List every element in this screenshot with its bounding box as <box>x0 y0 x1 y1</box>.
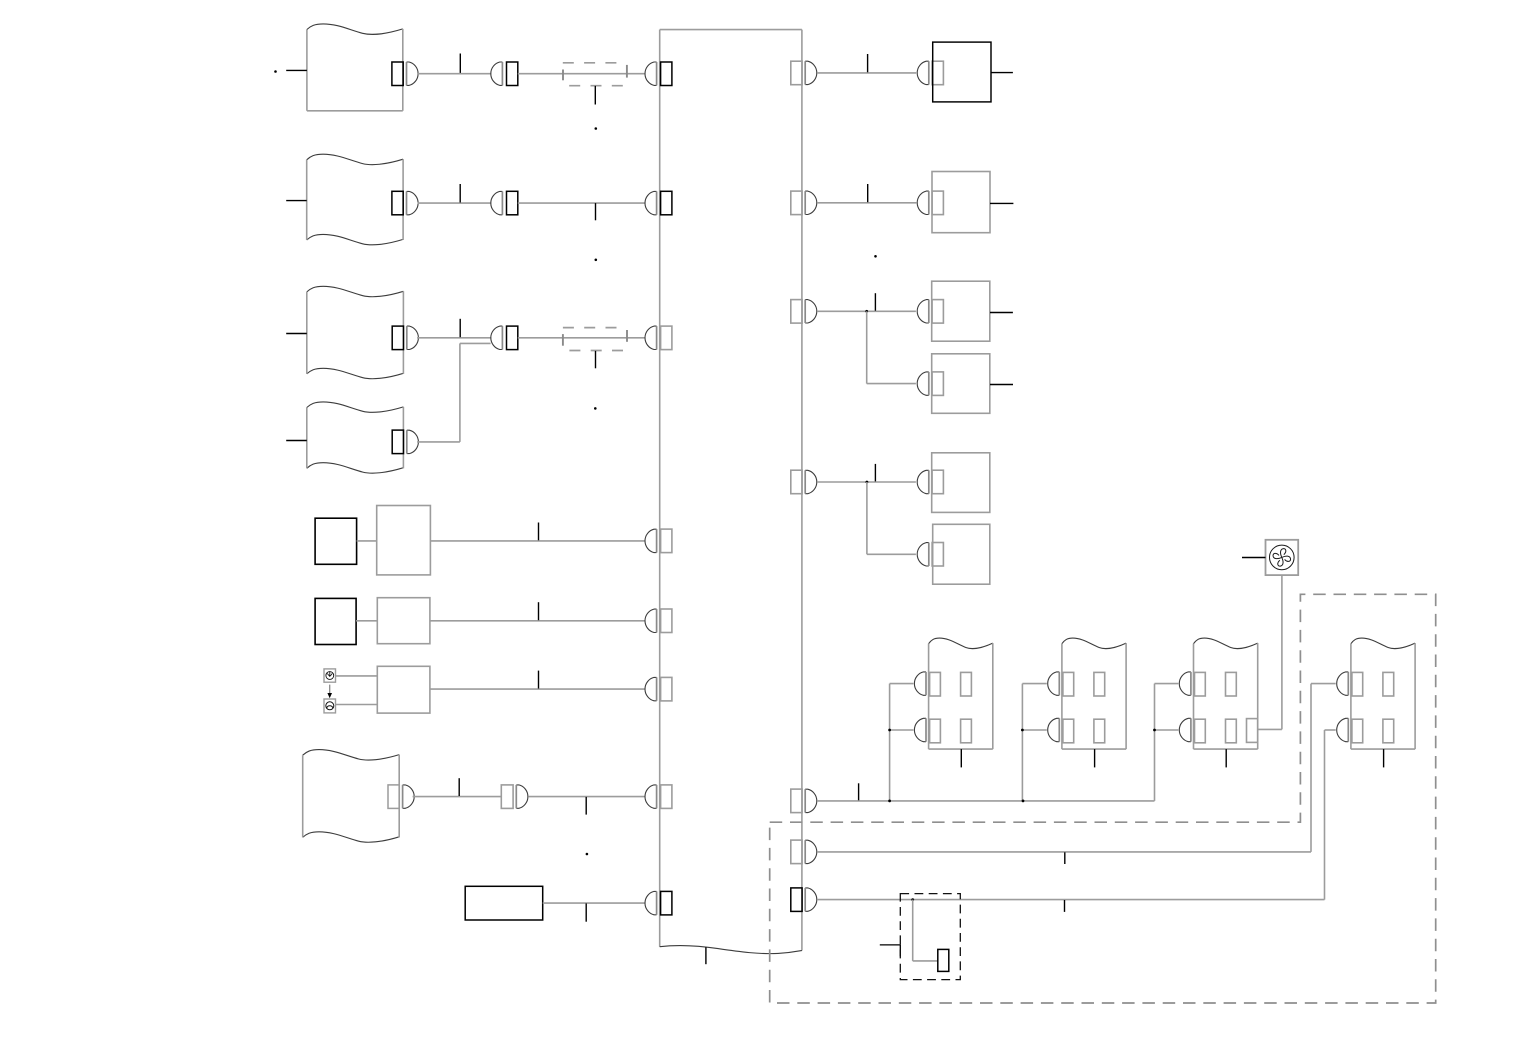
shield marking row 3 <box>563 328 627 351</box>
outlet 4 plug contact lower <box>1337 718 1349 741</box>
connector on box E <box>388 785 414 809</box>
wire icon 1 to module <box>336 675 378 677</box>
CU right pin row 8 <box>791 789 817 813</box>
fuse branch wire <box>913 900 938 961</box>
tick on wire row 5 <box>538 523 540 541</box>
outlet 1 <box>929 638 993 749</box>
stub wire left of fan <box>1242 557 1266 559</box>
ground tick below wire row 8 <box>585 797 587 815</box>
outlet 3 plug contact upper <box>1179 672 1191 695</box>
component square row 5 <box>315 518 357 564</box>
module box row 5 <box>377 506 431 575</box>
fuse element <box>938 949 949 971</box>
wire CU to unit R3a <box>817 310 916 312</box>
ground tick below shield row 3 <box>595 351 597 368</box>
harness box A (row 1) <box>307 24 403 111</box>
stub wire into box B <box>286 200 307 202</box>
junction outlet 1 riser <box>888 729 891 732</box>
dot mark below row 2 <box>595 259 598 262</box>
junction R3 <box>865 310 868 313</box>
stub right of unit R2 <box>990 202 1013 204</box>
outlet 2 plug contact lower <box>1048 718 1060 741</box>
harness box E (row 8) <box>303 750 400 843</box>
CU left pin row 2 <box>645 191 672 215</box>
outlet 1 plug contact upper <box>914 672 926 695</box>
connector on box D <box>392 430 418 454</box>
junction outlet 2 riser <box>1021 729 1024 732</box>
CU left pin row 1 <box>645 62 672 86</box>
outlet 3 plug contact lower <box>1179 718 1191 741</box>
unit box R2 <box>932 172 990 233</box>
wire box D to riser <box>417 441 460 443</box>
wire box E to inline connector 8 <box>413 796 502 798</box>
CU right pin row 2 <box>791 191 817 215</box>
outlet 4 bottom tick <box>1383 749 1385 767</box>
inline connector pair row 2 <box>491 191 518 215</box>
dot mark below R2 wire <box>874 255 877 258</box>
control unit main box <box>660 30 802 954</box>
tick on row 9 wire <box>1064 852 1066 864</box>
connector at unit R3a <box>917 300 943 324</box>
dot mark below row 1 <box>595 127 598 130</box>
stub wire into box D <box>286 440 307 442</box>
wire CU to unit R1 <box>817 72 916 74</box>
small dashed box around fuse <box>900 894 960 980</box>
unit box R4a <box>932 453 990 513</box>
wire row 6 to control unit <box>430 620 645 622</box>
tick on wire R3 <box>874 293 876 311</box>
CU left pin row 8 <box>645 785 672 809</box>
wire CU row 9 to outlet 4 upper <box>817 684 1336 852</box>
connector on box C <box>392 326 418 350</box>
ground tick below wire row 2 <box>595 203 597 220</box>
inline connector pair row 8 (mirrored) <box>501 785 528 809</box>
tick on wire R2 <box>867 184 869 202</box>
outlet feed wire from CU row 8 <box>817 800 1155 802</box>
shield marking row 1 <box>563 63 627 86</box>
tick on wire R4 <box>874 464 876 482</box>
harness box D (row 4) <box>307 402 404 473</box>
connector on box A <box>392 62 418 86</box>
dashed boundary region <box>770 594 1436 1003</box>
outlet 2 <box>1062 638 1126 749</box>
CU right pin row 1 <box>791 61 817 84</box>
connector at unit R2 <box>917 191 943 215</box>
harness box B (row 2) <box>307 154 403 245</box>
CU left pin row 6 <box>645 609 672 633</box>
CU left pin row 5 <box>645 529 672 553</box>
ground tick below shield row 1 <box>594 86 596 105</box>
CU left pin row 3 <box>645 326 672 350</box>
outlet 1 feed riser <box>890 684 914 801</box>
wire box B to inline connector 2 <box>418 202 492 204</box>
tick on wire row 2 <box>459 184 461 203</box>
wire inline connector 2 to control unit <box>518 202 645 204</box>
branch riser R4 <box>866 482 868 554</box>
CU left pin row 9 <box>645 891 672 915</box>
junction R4 <box>866 481 869 484</box>
stub wire into box A <box>286 69 307 71</box>
wire CU to unit R2 <box>817 202 916 204</box>
outlet 3 feed riser <box>1155 684 1179 801</box>
wire inline connector 1 to control unit <box>518 73 645 75</box>
unit box R1 <box>933 42 991 102</box>
dot mark below row 3 <box>594 407 597 410</box>
stub right of unit R1 <box>991 72 1013 74</box>
sensor icon 2 <box>324 699 336 713</box>
link row 6 <box>356 620 377 622</box>
connector on box B <box>392 191 418 215</box>
branch wire to unit R4b <box>867 553 916 555</box>
sensor icon 1 <box>324 669 336 682</box>
tick on wire row 7 <box>538 671 540 689</box>
arrow between icons <box>327 685 332 699</box>
wire row 7 to control unit <box>430 688 645 690</box>
tick on outlet feed wire <box>858 783 860 800</box>
corner mark left of fuse box <box>880 945 901 957</box>
wire row 5 to control unit <box>430 540 645 542</box>
junction outlet 3 riser <box>1153 729 1156 732</box>
CU right pin row 3 <box>791 300 817 324</box>
tick on wire R1 <box>867 54 869 72</box>
wire inline connector 8 to control unit <box>528 796 645 798</box>
tick on row 10 wire <box>1064 900 1066 912</box>
outlet 2 bottom tick <box>1094 749 1096 767</box>
link row 5 <box>357 540 377 542</box>
dot mark below row 8 <box>586 853 589 856</box>
tick on wire row 8 <box>458 778 460 796</box>
wire row 9 to control unit <box>543 902 645 904</box>
riser from box D wire <box>459 343 461 442</box>
junction feed/outlet1 <box>888 800 891 803</box>
tick below control unit torn edge <box>705 947 707 964</box>
dot mark left of box A <box>274 70 277 73</box>
branch riser R3 <box>866 311 868 383</box>
wire box C to inline connector 3 <box>417 337 491 339</box>
unit box R4b <box>933 524 990 584</box>
connector at unit R3b <box>917 372 943 396</box>
component square row 6 <box>315 598 356 644</box>
unit box R3a <box>932 281 990 341</box>
outlet 2 plug contact upper <box>1048 672 1060 695</box>
component block row 9 <box>465 886 543 920</box>
inline connector pair row 3 <box>491 326 518 350</box>
outlet 4 plug contact upper <box>1337 672 1349 695</box>
module box row 7 <box>377 666 430 713</box>
unit box R3b <box>932 354 990 414</box>
stub wire into box C <box>286 333 307 335</box>
outlet 3 bottom tick <box>1225 749 1227 767</box>
wire inline connector 3 to control unit <box>518 337 645 339</box>
connector at unit R4a <box>917 470 943 494</box>
CU right pin row 4 <box>791 470 817 494</box>
tick on wire row 1 <box>459 54 461 73</box>
junction feed/outlet2 <box>1022 800 1025 803</box>
fan symbol <box>1266 540 1299 575</box>
stub right of unit R3b <box>990 384 1013 386</box>
wire fan to outlet 3 <box>1258 575 1282 729</box>
stub right of unit R3a <box>990 312 1013 314</box>
branch wire to unit R3b <box>867 383 916 385</box>
junction fuse tap <box>911 898 914 901</box>
module box row 6 <box>377 598 430 644</box>
wire CU to unit R4a <box>817 481 916 483</box>
harness box C (row 3) <box>307 286 404 378</box>
outlet 1 plug contact lower <box>914 718 926 741</box>
inline connector pair row 1 <box>491 62 518 86</box>
wire box A to inline connector 1 <box>418 73 491 75</box>
CU right pin row 10 <box>791 888 817 912</box>
tick on wire row 6 <box>538 602 540 620</box>
outlet 3 <box>1194 638 1258 749</box>
wire box D branch to inline connector 3 <box>460 342 491 344</box>
outlet 4 <box>1351 638 1415 749</box>
CU left pin row 7 <box>645 677 672 701</box>
ground tick below wire row 9 <box>585 903 587 921</box>
outlet 2 feed riser <box>1022 684 1046 801</box>
connector at unit R4b <box>917 543 943 567</box>
CU right pin row 9 <box>791 840 817 864</box>
connector at unit R1 <box>917 61 943 84</box>
tick on wire row 3 <box>459 319 461 337</box>
wire CU row 10 to outlet 4 lower <box>817 730 1336 900</box>
wire icon 2 to module <box>336 704 378 706</box>
outlet 1 bottom tick <box>960 749 962 767</box>
